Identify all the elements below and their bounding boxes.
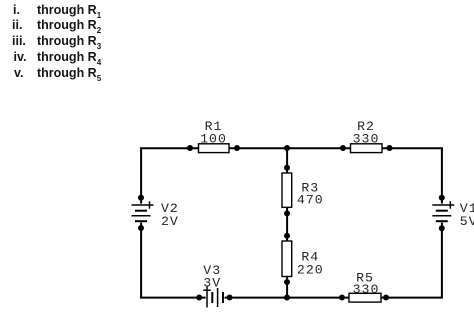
resistor R5 <box>349 271 381 302</box>
svg-text:470: 470 <box>297 193 324 208</box>
battery V2 <box>129 201 179 229</box>
junction R2 pin 1 <box>340 145 346 151</box>
junction R5 pin 2 <box>383 295 389 301</box>
battery V1 <box>430 201 474 229</box>
junction R4 pin 2 <box>284 279 290 285</box>
node B (bottom middle junction) <box>284 295 290 301</box>
junction R1 pin 1 <box>187 145 193 151</box>
svg-text:2V: 2V <box>161 214 179 229</box>
resistor R2 <box>351 119 383 153</box>
svg-text:220: 220 <box>297 262 324 277</box>
wire middle <box>286 148 288 298</box>
resistor R3 <box>282 173 324 208</box>
junction R5 pin 1 <box>339 295 345 301</box>
junction V2 pin 2 <box>138 225 144 231</box>
junction R2 pin 2 <box>387 145 393 151</box>
node A (top middle junction) <box>284 145 290 151</box>
svg-text:3V: 3V <box>203 276 221 291</box>
svg-text:330: 330 <box>353 282 380 297</box>
wire left <box>140 147 142 298</box>
junction V3 pin 1 <box>196 295 202 301</box>
junction V1 pin 2 <box>439 225 445 231</box>
junction V1 pin 1 <box>439 195 445 201</box>
svg-text:5V: 5V <box>460 214 474 229</box>
junction V2 pin 1 <box>138 195 144 201</box>
question list <box>13 3 20 17</box>
junction R3 pin 1 <box>284 165 290 171</box>
wire right <box>441 147 443 298</box>
svg-text:330: 330 <box>353 132 380 147</box>
wire bottom <box>140 297 443 299</box>
wire top <box>140 147 443 149</box>
svg-text:100: 100 <box>200 132 227 147</box>
junction R3 pin 2 <box>284 210 290 216</box>
junction V3 pin 2 <box>227 295 233 301</box>
resistor R1 <box>199 119 230 153</box>
resistor R4 <box>282 241 324 277</box>
junction R4 pin 1 <box>284 233 290 239</box>
battery V3 <box>203 263 224 308</box>
junction R1 pin 2 <box>234 145 240 151</box>
